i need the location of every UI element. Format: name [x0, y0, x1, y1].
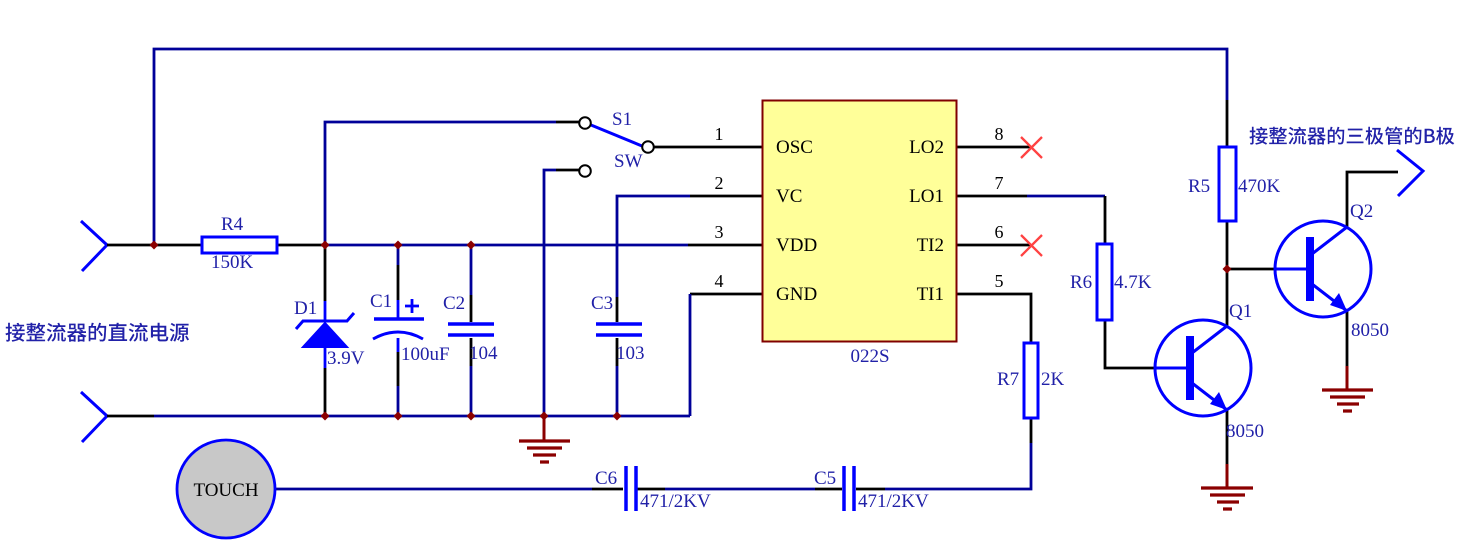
svg-text:150K: 150K: [211, 252, 254, 273]
label SW: [614, 151, 643, 172]
pin LO2: [909, 137, 944, 158]
svg-text:104: 104: [469, 343, 498, 364]
svg-text:R6: R6: [1070, 272, 1092, 293]
svg-text:VC: VC: [776, 186, 802, 207]
pin VDD: [776, 235, 817, 256]
value 470K: [1238, 176, 1281, 197]
wire TI1 pin 5 to R7: [957, 294, 1031, 343]
label C6: [595, 468, 617, 489]
capacitor C2: [448, 324, 494, 335]
wire LO1 pin 7 to R6: [957, 196, 1105, 244]
wire Q2 emitter to ground: [1346, 311, 1349, 366]
op-amp U1 touch IC 022S body: [763, 101, 957, 342]
svg-text:LO1: LO1: [909, 186, 944, 207]
wire VDD rail to pin 3: [325, 244, 762, 247]
node bottom rail at D1: [321, 412, 330, 421]
wire GND pin 4 down to bottom rail: [690, 294, 762, 416]
svg-text:3: 3: [715, 222, 724, 242]
transistor Q2: [1275, 221, 1371, 317]
pin number 1: [715, 124, 724, 144]
no-connect X pin 8: [1021, 137, 1042, 158]
svg-text:2: 2: [715, 173, 724, 193]
pin number 5: [995, 271, 1004, 291]
wire input to R4: [107, 244, 202, 247]
wire pin 6 stub: [957, 244, 1031, 247]
label R6: [1070, 272, 1092, 293]
pin number 3: [715, 222, 724, 242]
resistor R5: [1219, 147, 1236, 221]
wire C2 branch: [470, 245, 473, 416]
svg-text:C3: C3: [591, 293, 613, 314]
label R7: [997, 369, 1019, 390]
svg-text:8050: 8050: [1351, 320, 1389, 341]
node input junction: [150, 241, 159, 250]
svg-text:R4: R4: [221, 214, 244, 235]
label C2: [443, 293, 465, 314]
capacitor C3: [596, 324, 642, 335]
pin LO1: [909, 186, 944, 207]
value 150K: [211, 252, 254, 273]
value 104: [469, 343, 498, 364]
label Q2: [1350, 201, 1373, 222]
svg-text:TOUCH: TOUCH: [193, 480, 258, 501]
pin VC: [776, 186, 802, 207]
value 4.7K: [1114, 272, 1152, 293]
resistor R6: [1097, 244, 1112, 320]
capacitor C1 polarized: [373, 299, 424, 339]
svg-text:C5: C5: [814, 468, 836, 489]
value 2K: [1041, 369, 1065, 390]
node bottom rail at C1: [394, 412, 403, 421]
svg-text:4.7K: 4.7K: [1114, 272, 1152, 293]
wire R4 to VDD rail junction: [277, 244, 325, 247]
svg-text:C1: C1: [370, 291, 392, 312]
wire D1 branch: [324, 245, 327, 416]
value 8050 Q1: [1226, 421, 1264, 442]
pin TI1: [917, 284, 944, 305]
svg-text:GND: GND: [776, 284, 817, 305]
svg-text:8: 8: [995, 124, 1004, 144]
ground main rail: [519, 416, 570, 462]
wire lower switch contact to ground rail: [544, 170, 579, 416]
wire TOUCH to C6: [275, 488, 623, 491]
svg-text:S1: S1: [612, 109, 632, 130]
label C3: [591, 293, 613, 314]
pin number 2: [715, 173, 724, 193]
TOUCH plate electrode: [177, 440, 275, 538]
label Q1: [1229, 301, 1252, 322]
svg-text:TI1: TI1: [917, 284, 944, 305]
node bottom rail at ground: [540, 412, 549, 421]
svg-text:1: 1: [715, 124, 724, 144]
wire bottom rail: [107, 415, 690, 418]
label S1: [612, 109, 632, 130]
node VDD rail at C1: [394, 241, 403, 250]
wire C3 to bottom rail: [616, 297, 619, 416]
pin OSC: [776, 137, 813, 158]
diode D1 zener 3.9V: [296, 313, 354, 347]
connector input arrow upper: [81, 221, 107, 271]
connector output arrow to rectifier transistor B: [1397, 150, 1423, 196]
pin TI2: [917, 235, 944, 256]
svg-text:8050: 8050: [1226, 421, 1264, 442]
wire Q1 emitter to ground: [1226, 410, 1229, 464]
pin number 7: [995, 173, 1004, 193]
pin number 4: [715, 271, 724, 291]
capacitor C6: [626, 466, 636, 511]
node bottom rail at C2: [467, 412, 476, 421]
svg-text:4: 4: [715, 271, 724, 291]
wire R7 to C5 line: [885, 418, 1031, 489]
wire C5 right lead: [856, 488, 885, 491]
wire pin 8 stub: [957, 146, 1031, 149]
svg-text:5: 5: [995, 271, 1004, 291]
svg-text:3.9V: 3.9V: [327, 348, 365, 369]
value 471/2KV C6: [640, 491, 711, 512]
connector input arrow lower: [81, 392, 107, 442]
wire Q2 collector to output arrow: [1347, 172, 1398, 227]
svg-text:R7: R7: [997, 369, 1019, 390]
label DC power source from rectifier (Chinese): [6, 323, 190, 342]
svg-text:SW: SW: [614, 151, 643, 172]
svg-text:7: 7: [995, 173, 1004, 193]
ground Q1 emitter: [1201, 464, 1253, 509]
svg-text:TI2: TI2: [917, 235, 944, 256]
ground Q2 emitter: [1322, 366, 1373, 411]
wire C1 branch: [397, 245, 400, 416]
node VDD rail at C2: [467, 241, 476, 250]
svg-text:022S: 022S: [850, 346, 889, 367]
no-connect X pin 6: [1021, 235, 1042, 256]
value 8050 Q2: [1351, 320, 1389, 341]
svg-text:LO2: LO2: [909, 137, 944, 158]
wire S1 branch from VDD junction: [325, 122, 579, 245]
capacitor C5: [844, 466, 854, 511]
wire VC pin 2 to C3 branch: [617, 196, 762, 297]
svg-text:VDD: VDD: [776, 235, 817, 256]
svg-text:Q2: Q2: [1350, 201, 1373, 222]
switch S1: [579, 117, 654, 177]
resistor R7: [1024, 343, 1038, 418]
value 022S: [850, 346, 889, 367]
label C1: [370, 291, 392, 312]
value 100uF: [401, 344, 450, 365]
resistor R4: [202, 237, 277, 253]
label C5: [814, 468, 836, 489]
svg-text:471/2KV: 471/2KV: [858, 491, 929, 512]
node R5 Q1 Q2 junction: [1223, 265, 1232, 274]
value 3.9V: [327, 348, 365, 369]
transistor Q1: [1155, 320, 1251, 416]
wire R5 leads and Q1 collector: [1226, 100, 1229, 326]
svg-text:471/2KV: 471/2KV: [640, 491, 711, 512]
svg-text:100uF: 100uF: [401, 344, 450, 365]
svg-text:2K: 2K: [1041, 369, 1065, 390]
node VDD rail at D1: [321, 241, 330, 250]
label D1: [294, 298, 317, 319]
svg-text:R5: R5: [1188, 176, 1210, 197]
wire switch pole to pin 1: [653, 146, 762, 149]
svg-text:470K: 470K: [1238, 176, 1281, 197]
label to rectifier transistor B terminal (Chinese): [1250, 127, 1455, 145]
value 471/2KV C5: [858, 491, 929, 512]
svg-text:Q1: Q1: [1229, 301, 1252, 322]
label R5: [1188, 176, 1210, 197]
svg-text:C6: C6: [595, 468, 617, 489]
pin number 8: [995, 124, 1004, 144]
svg-text:D1: D1: [294, 298, 317, 319]
svg-text:6: 6: [995, 222, 1004, 242]
pin number 6: [995, 222, 1004, 242]
wire top rail from input junction to R5 branch: [154, 49, 1227, 244]
wire R6 to Q1 base: [1105, 320, 1155, 368]
svg-text:C2: C2: [443, 293, 465, 314]
svg-text:OSC: OSC: [776, 137, 813, 158]
label R4: [221, 214, 244, 235]
svg-text:103: 103: [616, 343, 645, 364]
wire C6 to C5: [637, 488, 842, 491]
value 103: [616, 343, 645, 364]
node bottom rail at C3: [613, 412, 622, 421]
wire junction to Q2 base: [1227, 268, 1275, 271]
pin GND: [776, 284, 817, 305]
